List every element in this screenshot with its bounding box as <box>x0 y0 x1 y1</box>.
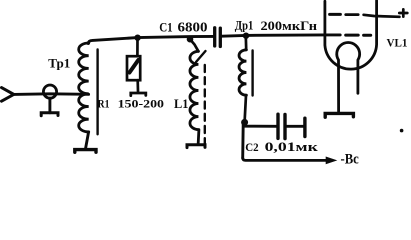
resistor R1 body <box>127 56 140 80</box>
svg-text:-Вс: -Вс <box>341 152 360 168</box>
svg-text:L1: L1 <box>174 97 188 111</box>
label + (supply) <box>399 9 407 16</box>
wire: top rail right segment <box>222 35 340 36</box>
wire: C2 to terminal <box>287 125 304 128</box>
junction: L1 tap <box>187 36 194 43</box>
capacitor C2 left plate <box>276 114 279 138</box>
svg-text:Др1: Др1 <box>235 19 254 33</box>
svg-text:150-200: 150-200 <box>118 97 164 111</box>
ground: R1 <box>131 93 146 96</box>
tube grid g2 dash <box>346 13 359 16</box>
transformer Tr1 winding <box>79 43 89 132</box>
inductor L1 winding <box>190 51 198 129</box>
wire: L1 top lead <box>190 39 198 51</box>
svg-text:200мкГн: 200мкГн <box>261 18 318 33</box>
capacitor C2 right plate <box>283 115 286 139</box>
wire: node down to -Vc rail <box>241 124 244 158</box>
wire: g2 to + supply <box>364 15 400 17</box>
tube grid g1 dash <box>346 34 359 37</box>
-Vc arrowhead <box>326 157 338 165</box>
svg-text:6800: 6800 <box>178 21 208 36</box>
wire: L1 bottom lead <box>197 130 200 144</box>
svg-text:R1: R1 <box>98 97 110 111</box>
svg-text:Тр1: Тр1 <box>48 56 70 71</box>
input arrow <box>2 88 14 102</box>
svg-text:C2: C2 <box>245 142 259 154</box>
ground: tube cathode <box>325 113 353 117</box>
wire: -Vc bottom rail <box>243 158 326 160</box>
svg-text:C1: C1 <box>159 20 173 35</box>
wire: Tr1 bottom lead <box>86 132 89 148</box>
ground: jack <box>41 113 58 116</box>
tube grid g2 dash <box>330 13 341 16</box>
wire: Dr1 top lead <box>244 36 247 50</box>
junction: Dr1 top <box>243 33 249 39</box>
jack X1 <box>43 85 56 98</box>
wire: input to Tr1 tap <box>14 92 89 95</box>
wire: node to C2 <box>245 125 277 128</box>
capacitor C1 left plate <box>213 28 216 46</box>
svg-text:0,01мк: 0,01мк <box>265 140 319 154</box>
svg-text:VL1: VL1 <box>387 37 408 49</box>
ground: L1 <box>187 145 205 148</box>
wire: jack stem <box>48 98 51 113</box>
wire: R1 bottom lead <box>136 80 139 91</box>
junction: R1 tap <box>134 35 140 41</box>
L1 adjustable core (dashed) <box>204 65 206 150</box>
tube filament <box>337 42 360 111</box>
capacitor C1 right plate <box>219 28 222 46</box>
wire: R1 top lead <box>136 38 139 57</box>
tube VL1 envelope <box>325 1 377 70</box>
wire: top rail left segment <box>88 36 213 43</box>
ground: Tr1 <box>75 150 96 153</box>
wire: Dr1 bottom lead <box>245 95 246 120</box>
Dr1 core <box>251 51 253 96</box>
L1 core adjuster stroke <box>196 51 206 62</box>
C2 terminal bar <box>303 118 306 136</box>
R1 power mark <box>130 60 139 73</box>
Tr1 core <box>96 50 98 135</box>
tube grid g1 dash <box>364 34 371 37</box>
junction: Dr1 bottom node <box>241 119 248 126</box>
stray print dot <box>400 129 404 133</box>
choke Dr1 winding <box>239 50 246 95</box>
